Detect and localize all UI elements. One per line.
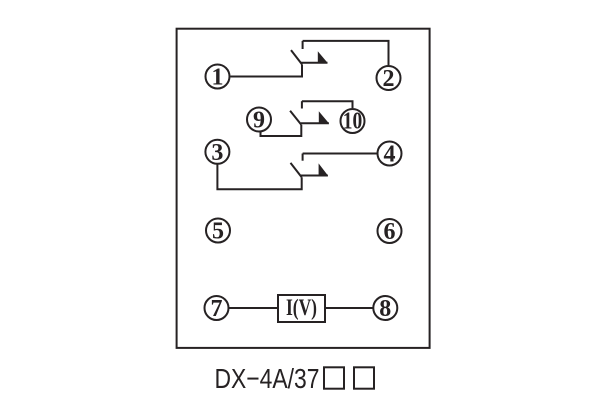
contact K3 arrowhead xyxy=(319,163,328,175)
terminal 3 xyxy=(205,140,229,164)
terminal 1 xyxy=(206,65,230,89)
contact K3 fixed stub xyxy=(302,154,304,161)
terminal 8 xyxy=(373,296,397,320)
contact K3 moving blade xyxy=(291,163,302,177)
wire contact K1 to terminal 2 xyxy=(303,41,389,65)
svg-text:9: 9 xyxy=(253,108,265,134)
contact K1 moving blade xyxy=(291,50,302,64)
contact K1 fixed stub xyxy=(302,41,304,49)
contact K2 fixed stub xyxy=(301,101,303,108)
wire terminal 7 to coil box xyxy=(229,307,279,309)
svg-text:10: 10 xyxy=(343,109,363,135)
wire contact K2 to terminal 10 xyxy=(302,101,353,108)
contact K2 arrow line xyxy=(301,122,329,124)
svg-text:2: 2 xyxy=(383,66,395,92)
enclosure outline xyxy=(177,29,430,348)
svg-text:8: 8 xyxy=(379,296,391,322)
contact K3 arrow line xyxy=(301,175,328,177)
svg-text:3: 3 xyxy=(211,140,223,166)
contact K1 arrowhead xyxy=(318,51,328,63)
terminal 6 xyxy=(378,219,402,243)
terminal 4 xyxy=(378,142,402,166)
wire terminal1 to contact K1 xyxy=(231,64,303,76)
coil box I(V) xyxy=(278,295,325,322)
terminal 5 xyxy=(206,219,230,243)
caption placeholder square 1 xyxy=(324,367,344,388)
contact K2 moving blade xyxy=(290,111,301,125)
svg-text:7: 7 xyxy=(211,296,223,322)
terminal 7 xyxy=(205,296,229,320)
svg-text:6: 6 xyxy=(384,219,396,245)
wire terminal 3 to contact K3 xyxy=(217,164,301,190)
contact K1 arrow line xyxy=(301,62,328,64)
caption placeholder square 2 xyxy=(354,367,374,388)
contact K2 arrowhead xyxy=(319,111,329,123)
wire coil box to terminal 8 xyxy=(325,307,373,309)
terminal 9 xyxy=(247,108,271,132)
svg-text:DX−4A/37: DX−4A/37 xyxy=(215,363,320,394)
terminal 10 xyxy=(341,109,365,133)
svg-text:5: 5 xyxy=(212,219,224,245)
svg-text:I(V): I(V) xyxy=(286,295,317,320)
svg-text:1: 1 xyxy=(212,65,224,91)
wire terminal 9 to contact K2 xyxy=(261,125,302,136)
wire contact K3 to terminal 4 xyxy=(303,153,378,155)
terminal 2 xyxy=(377,66,401,90)
svg-text:4: 4 xyxy=(384,142,396,168)
